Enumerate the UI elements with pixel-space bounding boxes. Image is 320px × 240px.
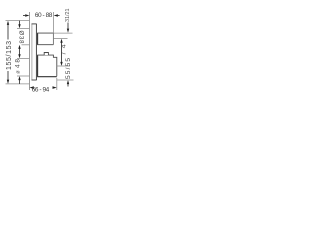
plate bottom edge — [32, 79, 37, 81]
inner dim C tail — [19, 80, 21, 84]
knob 2 (lower handle) fill — [38, 55, 57, 77]
plate top edge — [32, 23, 37, 25]
svg-text:48: 48 — [15, 59, 22, 68]
ext line knob2 front bottom — [56, 78, 58, 90]
knob 1 (upper handle) fill — [38, 33, 54, 45]
svg-text:60 - 88: 60 - 88 — [35, 12, 53, 19]
knob 1 back edge — [37, 33, 39, 45]
dim 60-88 left arrow — [23, 15, 25, 17]
dim 74 bottom arrow — [60, 62, 62, 66]
inner dim C bottom arrow — [18, 76, 20, 80]
dim 60-88 right arrow — [54, 14, 58, 17]
svg-text:31/21: 31/21 — [65, 9, 71, 22]
wall line — [29, 12, 31, 90]
dim 31/21 line — [67, 23, 69, 30]
dim 31/21 down arrow — [67, 29, 69, 33]
knob 1 top and bottom edges — [37, 33, 53, 45]
knob 1 front edge — [52, 33, 54, 45]
inner dim A down arrow — [18, 24, 20, 28]
svg-text:55/55: 55/55 — [65, 58, 72, 79]
inner dim B line — [19, 49, 21, 55]
ext line knob2 centerline y66 — [57, 65, 70, 67]
svg-text:66 - 94: 66 - 94 — [32, 87, 50, 94]
extension line knob1 front — [53, 12, 55, 33]
svg-text:155/153: 155/153 — [6, 41, 13, 70]
knob 2 safety button bump — [44, 53, 48, 56]
inner dim A line — [19, 21, 21, 25]
ext line y28.4 — [17, 27, 30, 29]
ext line bottom (155 lower) — [6, 83, 30, 85]
inner dim B bottom arrow — [18, 54, 20, 58]
dim 66-94 right arrow — [53, 86, 57, 89]
inner dim B top arrow — [18, 45, 20, 49]
knob 2 bottom edge — [37, 76, 57, 78]
dim 66-94 left arrow — [30, 86, 34, 89]
plate body fill — [32, 24, 37, 80]
dim 155/153 bottom arrow — [7, 71, 9, 80]
dim 55 arrow tail — [67, 84, 69, 87]
ext line knob1 top y33 — [54, 32, 73, 34]
svg-text:Ø38: Ø38 — [18, 31, 24, 45]
dim 55 bottom arrow — [67, 80, 69, 84]
ext line top (155 upper) — [6, 20, 30, 22]
ext line y58.4 — [17, 57, 30, 59]
ext line knob1 centerline y38.6 — [54, 38, 68, 40]
dim 74 line — [61, 42, 63, 62]
plate front edge — [35, 24, 37, 80]
dim 74 top arrow — [60, 39, 62, 43]
knob 2 top and stepped front edge — [37, 55, 57, 76]
plate left edge — [31, 24, 33, 80]
ext line plate bottom y80 — [57, 79, 74, 81]
dim 155/153 top arrow — [7, 21, 9, 25]
ext line y44.8 — [22, 44, 30, 46]
knob 2 back edge — [37, 55, 39, 77]
ext line y76 — [17, 75, 30, 77]
